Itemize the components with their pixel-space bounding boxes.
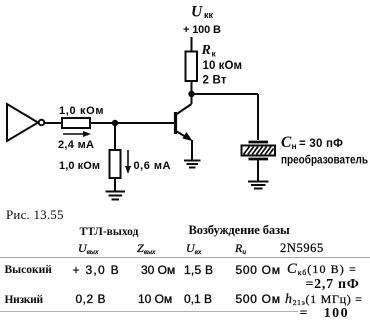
resistor R2 1,0 kOhm vertical (110, 150, 121, 178)
column header 2N5965 (280, 242, 324, 255)
row label Высокий (5, 265, 52, 277)
node junction dot (112, 120, 118, 126)
transducer Cn (piezo) (242, 142, 276, 159)
svg-text:1,0 кОм: 1,0 кОм (59, 105, 104, 117)
svg-text:= 30 пФ: = 30 пФ (299, 138, 343, 150)
svg-text:2 Вт: 2 Вт (203, 75, 227, 87)
value 500 Ом (236, 293, 281, 305)
value 0,2 В (76, 293, 107, 305)
value 1,5 В (184, 264, 213, 276)
svg-text:0,6 мА: 0,6 мА (134, 160, 171, 172)
ground below R2 (106, 192, 126, 200)
value 10 Ом (138, 293, 172, 305)
collector node dot (188, 91, 194, 97)
value Cкб(10 В) = (287, 263, 357, 275)
value +3,0 В (73, 264, 120, 276)
resistor Rk 10 kOhm (186, 52, 198, 82)
column header Uвых (78, 242, 98, 254)
svg-text:2,4 мА: 2,4 мА (58, 139, 94, 151)
label Cn = 30 pF (281, 134, 343, 151)
value =2,7 пФ (306, 278, 360, 292)
svg-text:C: C (281, 134, 292, 151)
wire R1 to transistor base (90, 122, 174, 124)
wire collector up to node (191, 94, 193, 104)
wire node to transducer branch (192, 94, 259, 140)
value 0,1 В (184, 293, 212, 305)
inverter gate (NOT) (7, 104, 44, 141)
row label Низкий (5, 295, 43, 307)
svg-text:10 кОм: 10 кОм (203, 60, 243, 72)
svg-text:R: R (201, 43, 211, 58)
caption Рис. 13.55 (6, 208, 64, 221)
svg-text:U: U (191, 4, 203, 21)
wire node up to Rk (191, 81, 193, 94)
column header Rи (235, 242, 246, 254)
value 500 Ом (236, 264, 281, 276)
wire bubble to resistor R1 (45, 122, 63, 124)
bottom table rule (0, 311, 298, 312)
ground below emitter (184, 161, 201, 168)
value h21э(1 МГц) = (285, 293, 363, 305)
value = 100 (300, 307, 349, 321)
current arrow 0,6 mA down (125, 150, 131, 174)
svg-text:1,0 кОм: 1,0 кОм (59, 160, 100, 172)
table header Возбуждение базы (189, 224, 290, 237)
svg-text:н: н (292, 141, 297, 151)
resistor R1 1,0 kOhm horizontal (62, 118, 90, 128)
column header Zвых (137, 242, 155, 254)
ground below transducer (248, 182, 269, 189)
column header Uвх (186, 242, 201, 254)
current arrow 2,4 mA (63, 131, 91, 137)
svg-text:кк: кк (204, 10, 214, 20)
value 30 Ом (141, 264, 175, 276)
wire Rk to supply (191, 37, 193, 52)
wire R2 to ground (114, 178, 116, 191)
svg-text:+ 100 В: + 100 В (183, 24, 221, 36)
wire emitter down (191, 140, 193, 160)
wire transducer to ground (257, 160, 259, 181)
table header ТТЛ-выход (80, 227, 139, 239)
transistor Q1 (176, 104, 193, 141)
wire node down to R2 (114, 123, 116, 150)
svg-text:к: к (212, 49, 217, 59)
svg-text:преобразователь: преобразователь (281, 155, 368, 167)
table rule under headers (0, 257, 370, 258)
